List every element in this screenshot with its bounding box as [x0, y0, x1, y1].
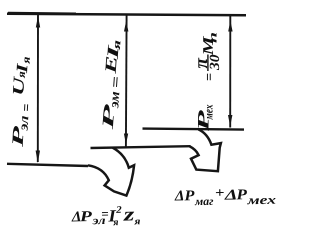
svg-text:30: 30	[208, 55, 223, 72]
svg-text:=: =	[109, 76, 125, 89]
svg-text:2: 2	[115, 205, 122, 216]
svg-text:я: я	[111, 39, 124, 52]
svg-text:Δ: Δ	[174, 188, 185, 204]
svg-text:P: P	[236, 187, 248, 203]
svg-text:+: +	[215, 186, 225, 201]
svg-text:эм: эм	[106, 91, 122, 110]
svg-text:=: =	[203, 73, 218, 81]
svg-text:P: P	[184, 188, 195, 204]
svg-text:мех: мех	[202, 105, 216, 121]
svg-text:эл: эл	[15, 115, 31, 132]
svg-text:п: п	[208, 32, 220, 43]
svg-text:мех: мех	[246, 193, 276, 208]
svg-text:я: я	[20, 56, 32, 65]
svg-text:маг: маг	[194, 196, 214, 208]
svg-text:=: =	[19, 103, 34, 112]
svg-text:я: я	[112, 217, 118, 228]
svg-text:P: P	[80, 209, 93, 225]
svg-text:я: я	[133, 216, 140, 227]
